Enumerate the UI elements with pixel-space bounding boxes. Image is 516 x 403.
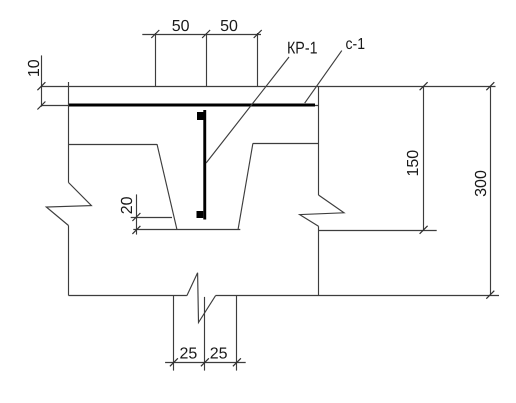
dim 150 tick top (420, 82, 428, 90)
svg-text:20: 20 (119, 196, 136, 214)
dim 25 tick 2 (201, 358, 209, 366)
dim 25 extension line 1 (173, 296, 175, 371)
dim 10 line (41, 55, 43, 106)
slab bottom edge (41, 105, 318, 107)
slab top edge (41, 86, 495, 88)
left body edge upper (68, 82, 70, 183)
right body edge upper (318, 87, 320, 196)
svg-text:25: 25 (210, 346, 228, 363)
svg-text:КР-1: КР-1 (287, 39, 318, 58)
left body edge lower (68, 226, 70, 296)
dim 50 tick 3 (254, 30, 262, 38)
right body edge lower (318, 226, 320, 295)
dim 25 tick 1 (170, 358, 178, 366)
dim 300 tick bottom (486, 291, 494, 299)
bottom edge right part (216, 295, 499, 297)
dim 50 tick 1 (151, 30, 159, 38)
right void bottom edge / 150 extension (319, 230, 437, 232)
right break line (300, 195, 344, 226)
rib left edge (157, 144, 177, 230)
dim 25 extension line 3 (236, 296, 238, 371)
rib right edge (238, 143, 253, 230)
svg-text:50: 50 (172, 18, 190, 35)
mesh c-1 thick line (68, 104, 315, 107)
bottom edge left part (69, 295, 187, 297)
leader KR-1 (206, 57, 289, 163)
dim 20 tick top (132, 213, 140, 221)
dim 50-50 line (142, 34, 261, 36)
svg-text:10: 10 (26, 59, 43, 77)
left void top edge (69, 144, 158, 146)
dim 25 tick 3 (233, 358, 241, 366)
left break line (46, 183, 91, 226)
dim 150 tick bottom (420, 226, 428, 234)
reinforcement bar KR-1 (197, 110, 207, 220)
svg-text:с-1: с-1 (346, 36, 366, 53)
svg-text:150: 150 (405, 150, 422, 177)
bottom break line (187, 273, 216, 323)
svg-text:25: 25 (180, 346, 198, 363)
dim 50 extension line 3 (257, 33, 259, 87)
dim 300 line (490, 87, 492, 295)
dim 20 tick bottom (132, 226, 140, 234)
dim 25 extension line 2 (204, 297, 206, 371)
right void top edge (253, 143, 319, 145)
dim 20 extension line (131, 217, 172, 219)
svg-text:300: 300 (473, 170, 490, 197)
dim 50 extension line 1 (155, 33, 157, 87)
dim 300 tick top (486, 82, 494, 90)
leader c-1 (305, 51, 342, 104)
rib bottom edge and 20-dim line (133, 229, 240, 231)
dim 150 line (423, 87, 425, 230)
dim 10 tick bottom (37, 102, 45, 110)
dim 50 extension line 2 (206, 33, 208, 87)
dim 50 tick 2 (202, 30, 210, 38)
dim 25-25 line (165, 362, 246, 364)
svg-text:50: 50 (220, 18, 238, 35)
dim 20 line (136, 194, 138, 234)
dim 10 tick top (37, 82, 45, 90)
